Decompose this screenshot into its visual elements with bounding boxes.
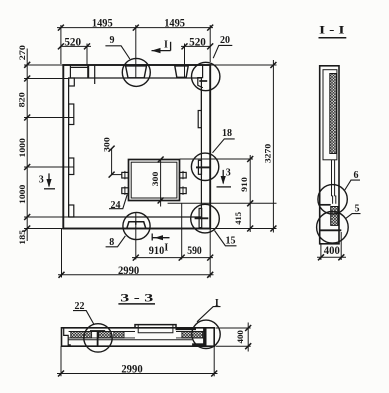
svg-text:3: 3	[39, 174, 44, 185]
inner 300 dim	[160, 160, 162, 207]
3-3 detail circle right	[192, 320, 220, 348]
leader 8	[106, 236, 126, 247]
3-3 insulation strip a	[71, 332, 92, 338]
right bracket 1	[198, 111, 201, 128]
svg-text:415: 415	[233, 211, 243, 224]
I-I inner box	[323, 70, 337, 160]
3-3 insulation strip b	[99, 332, 111, 338]
top-left corner joint lines	[69, 66, 71, 78]
I-I mid verticals	[331, 160, 333, 196]
lifting loop bottom (in circle 8)	[127, 222, 146, 229]
top notch near detail 20	[175, 66, 188, 77]
3-3 left end staircase joint	[64, 328, 71, 345]
opening tab right lower	[180, 188, 187, 194]
opening tab left upper	[122, 172, 129, 178]
leader 5	[346, 214, 361, 219]
3-3 strip row lines	[69, 331, 135, 333]
left tab 2	[69, 158, 74, 175]
I-I lower insulation block	[331, 207, 338, 226]
svg-text:I: I	[215, 298, 219, 309]
extension line top right	[209, 25, 211, 62]
section marker I top	[152, 50, 171, 52]
panel inner rib right	[200, 78, 202, 217]
left dimension chain line	[26, 49, 28, 242]
svg-text:3 - 3: 3 - 3	[120, 293, 153, 305]
svg-text:3: 3	[226, 167, 231, 178]
right bracket 3 bar	[195, 217, 209, 219]
3-3 bar outline	[62, 328, 215, 346]
leader 24	[109, 194, 127, 208]
svg-text:I: I	[164, 242, 168, 253]
3-3 plateau	[135, 325, 176, 328]
400 dim I-I extension right	[340, 232, 342, 260]
opening tab left lower	[122, 188, 129, 194]
I-I insulation strip	[330, 74, 337, 154]
svg-text:590: 590	[187, 243, 202, 257]
extension line top centre	[135, 25, 137, 78]
detail circle 6	[318, 185, 347, 214]
svg-text:300: 300	[102, 136, 112, 152]
svg-text:20: 20	[220, 35, 230, 46]
panel inner rib bottom	[69, 216, 202, 218]
svg-text:520: 520	[64, 35, 81, 49]
svg-text:1495: 1495	[92, 16, 113, 30]
svg-text:I - I: I - I	[319, 24, 345, 36]
svg-text:I: I	[164, 39, 168, 50]
detail circle 9	[122, 58, 150, 86]
leader 20	[213, 45, 232, 58]
lifting loop recess top (in circle 9)	[126, 66, 147, 78]
section marker 3 left	[48, 173, 50, 186]
left tab 3	[69, 205, 74, 217]
svg-text:2990: 2990	[121, 362, 142, 376]
svg-text:1000: 1000	[17, 184, 27, 204]
I-I outer bar	[320, 66, 339, 244]
3-3 insulation strip c	[114, 332, 124, 338]
dimension line 3270	[272, 60, 274, 233]
2990 dim 3-3	[60, 346, 62, 376]
svg-text:910: 910	[239, 176, 249, 192]
svg-text:9: 9	[110, 35, 115, 46]
400 dim 3-3	[216, 327, 251, 329]
right bracket 2 bar	[196, 166, 210, 168]
svg-text:520: 520	[189, 35, 206, 49]
svg-text:3270: 3270	[263, 143, 273, 163]
detail circle 8	[123, 212, 150, 239]
left tab 1	[69, 104, 74, 125]
svg-text:24: 24	[111, 200, 121, 211]
top-right corner detail (in circle 20)	[198, 65, 203, 88]
extension line 520 left	[86, 44, 88, 66]
leader 9	[105, 46, 129, 59]
svg-text:910: 910	[149, 243, 164, 257]
left extension lines	[24, 64, 63, 66]
svg-text:15: 15	[226, 236, 236, 247]
svg-text:400: 400	[324, 243, 340, 257]
right dimension chain line 910/415	[249, 155, 251, 232]
svg-text:400: 400	[235, 329, 245, 343]
section marker 3 right	[222, 170, 224, 183]
leader 6	[345, 180, 360, 190]
leader 18	[213, 139, 235, 153]
right bracket 3 (detail 15)	[199, 208, 202, 227]
svg-text:2990: 2990	[118, 263, 139, 277]
right bracket 2 (detail 18)	[198, 160, 201, 174]
tick marks top dim	[58, 25, 64, 31]
3-3 detail circle left	[84, 324, 112, 352]
label 22 leader	[73, 311, 94, 325]
dim line 520 right	[181, 45, 210, 47]
svg-text:5: 5	[355, 203, 360, 214]
panel outer outline (plan)	[63, 65, 210, 229]
svg-text:18: 18	[222, 128, 232, 139]
extension line 520 right	[184, 44, 186, 78]
dim line 520 left	[61, 45, 91, 47]
detail circle 5	[317, 212, 349, 244]
3-3 right end joint rib	[203, 328, 206, 345]
leader 15	[215, 231, 237, 246]
3-3 insulation strip d	[182, 332, 203, 338]
400 dim I-I extension left	[320, 244, 322, 260]
opening tab right upper	[180, 172, 187, 178]
detail circle 18	[191, 153, 218, 180]
3-3 mid line	[68, 339, 192, 341]
I-I bottom bar	[320, 229, 342, 231]
extension line top left	[60, 25, 62, 64]
svg-text:22: 22	[75, 301, 85, 312]
svg-text:300: 300	[150, 171, 160, 187]
central opening inner square	[131, 162, 177, 198]
3-3 T rib	[90, 330, 105, 332]
I-I ledge bar	[320, 204, 331, 206]
dimension line 2990	[58, 274, 214, 276]
svg-text:1000: 1000	[17, 137, 27, 157]
svg-text:270: 270	[17, 44, 27, 60]
400 dim I-I line	[317, 256, 346, 258]
panel inner rib left	[68, 78, 70, 217]
svg-text:185: 185	[17, 229, 27, 245]
left 300 dim	[111, 149, 113, 175]
bottom extension lines	[61, 229, 63, 278]
right extension lines	[180, 158, 253, 160]
central opening outer square	[129, 160, 180, 201]
detail circle 15	[191, 204, 220, 233]
leader I	[197, 307, 221, 322]
opening tab divider marks	[124, 171, 126, 179]
detail circle 20	[192, 62, 220, 90]
svg-text:820: 820	[16, 91, 26, 107]
svg-text:1495: 1495	[164, 16, 185, 30]
top dimension line 2990 split	[57, 27, 213, 29]
bottom dimension line 910/590	[132, 257, 213, 259]
panel inner rib top	[69, 77, 202, 79]
section marker I bottom	[152, 237, 169, 239]
